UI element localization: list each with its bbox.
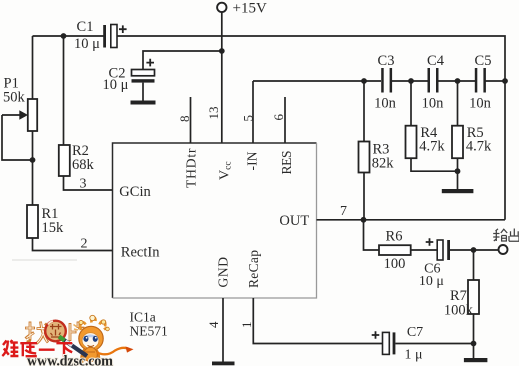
node R7 bottom junction (471, 341, 477, 347)
wire OUT down to R6 (364, 220, 380, 250)
mascot (59, 315, 134, 362)
ground C2 (131, 101, 156, 105)
svg-text:4: 4 (206, 321, 221, 328)
capacitor C1 (74, 19, 127, 52)
svg-text:C5: C5 (475, 53, 492, 69)
node P1/R1 junction (30, 157, 36, 163)
node 输出 label (493, 229, 519, 242)
char 找 (25, 322, 48, 344)
wire R1 to RectIn pin 2 (33, 237, 113, 252)
resistor R5 (452, 81, 492, 189)
resistor R3 (359, 81, 395, 220)
pin 8 THDtr stub (177, 97, 192, 143)
svg-text:10n: 10n (422, 96, 445, 112)
svg-text:13: 13 (206, 107, 221, 120)
capacitor C6 (419, 238, 450, 289)
svg-text:50k: 50k (3, 90, 26, 106)
svg-text:ReCap: ReCap (246, 250, 261, 288)
svg-text:68k: 68k (72, 157, 95, 173)
wire top input rail (33, 35, 105, 37)
svg-text:-IN: -IN (245, 151, 260, 170)
svg-text:2: 2 (81, 237, 88, 252)
resistor R7 (444, 250, 479, 344)
text 维库一下 (2, 340, 72, 357)
node output junction (471, 247, 477, 253)
svg-text:C1: C1 (77, 19, 94, 35)
wire C2 to ground (142, 83, 144, 101)
svg-text:10 μ: 10 μ (74, 36, 100, 52)
ground pin 4 (212, 362, 235, 366)
wire R2 to GCin pin 3 (64, 176, 113, 192)
char 片 (70, 322, 85, 342)
svg-text:NE571: NE571 (130, 324, 168, 339)
wire P1 wiper feedback (2, 115, 33, 160)
node C2 tap (219, 48, 225, 54)
wire OUT pin 7 (317, 204, 506, 220)
pin 6 RES stub (271, 97, 286, 143)
svg-text:1 μ: 1 μ (404, 348, 422, 363)
resistor R2 (59, 36, 95, 176)
watermark logo dzsc (2, 315, 133, 366)
svg-text:C4: C4 (427, 53, 445, 69)
terminal output (499, 245, 508, 254)
svg-text:100: 100 (384, 256, 406, 272)
wire right rail (504, 81, 506, 220)
resistor R1 (27, 160, 64, 238)
node R4 top (408, 78, 414, 84)
node R3 top (361, 78, 367, 84)
potentiometer P1 (2, 76, 37, 132)
wire top rail to right corner (117, 36, 505, 81)
wire +15V to Vcc pin 13 (221, 12, 223, 143)
resistor R4 (406, 81, 458, 171)
svg-text:+15V: +15V (233, 1, 267, 17)
terminal +15V (217, 1, 267, 17)
svg-text:OUT: OUT (279, 213, 309, 229)
svg-text:GCin: GCin (119, 184, 151, 200)
node R5 top (455, 78, 461, 84)
svg-text:100k: 100k (444, 303, 474, 319)
pin 5 wire -IN (241, 81, 256, 143)
svg-text:4.7k: 4.7k (419, 139, 445, 155)
op-amp U1 IC1a NE571 body (113, 143, 317, 339)
capacitor C7 (372, 325, 423, 363)
svg-text:GND: GND (216, 257, 231, 288)
pin 4 GND wire (206, 298, 223, 362)
svg-text:C3: C3 (378, 53, 395, 69)
wire left rail down to P1 (32, 36, 34, 99)
node input junction (61, 33, 67, 39)
wire P1 bottom lead (32, 131, 34, 160)
capacitor C2 (103, 59, 155, 93)
magnifier circle (45, 321, 67, 344)
node R4 R5 junction (455, 168, 461, 174)
node right rail top (502, 78, 508, 84)
capacitor C3 (374, 53, 397, 112)
svg-text:10 μ: 10 μ (419, 274, 444, 289)
svg-text:82k: 82k (372, 156, 395, 172)
ground output (464, 358, 488, 362)
capacitor C5 (469, 53, 492, 112)
svg-text:6: 6 (271, 114, 286, 121)
wire feedback row (253, 80, 505, 82)
ground R4 R5 (442, 189, 474, 193)
svg-text:RectIn: RectIn (121, 245, 160, 261)
svg-text:4.7k: 4.7k (466, 139, 492, 155)
svg-text:10n: 10n (374, 96, 397, 112)
capacitor C4 (422, 53, 445, 112)
wire C6 to output (450, 249, 499, 251)
svg-text:THDtr: THDtr (184, 148, 199, 188)
resistor R6 (379, 229, 437, 273)
svg-text:8: 8 (177, 116, 192, 123)
svg-text:15k: 15k (42, 220, 65, 236)
wire to ground right (473, 344, 475, 359)
svg-text:RES: RES (279, 151, 294, 175)
svg-text:5: 5 (241, 115, 256, 122)
svg-text:1: 1 (239, 322, 254, 329)
node OUT junction (361, 217, 367, 223)
svg-text:IC1a: IC1a (130, 310, 156, 325)
pin 1 ReCap wire (239, 298, 383, 344)
svg-text:3: 3 (80, 177, 87, 192)
wire C2 branch (143, 51, 222, 70)
svg-text:C7: C7 (407, 325, 423, 340)
svg-text:10 μ: 10 μ (103, 77, 129, 93)
wire C7 to R7 bottom (395, 343, 473, 345)
svg-text:10n: 10n (469, 96, 492, 112)
svg-text:www.dzsc.com: www.dzsc.com (27, 354, 113, 366)
svg-text:7: 7 (340, 204, 347, 219)
scan artifact faint line (12, 259, 77, 261)
svg-text:R6: R6 (386, 229, 403, 245)
